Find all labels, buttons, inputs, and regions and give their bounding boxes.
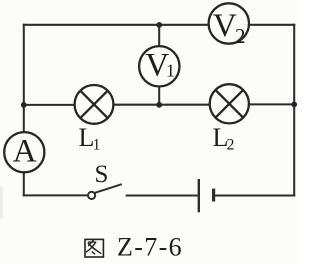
node junction left — [21, 102, 27, 108]
wire V2 to top-right corner — [249, 24, 294, 26]
svg-text:A: A — [13, 133, 37, 169]
label L2 — [213, 123, 235, 154]
lamp L1 — [75, 85, 114, 124]
wire middle left (node to L1) — [24, 104, 75, 106]
svg-text:2: 2 — [235, 24, 246, 48]
switch S pivot — [88, 192, 95, 199]
battery negative plate (short) — [212, 189, 215, 202]
svg-text:V: V — [213, 8, 237, 44]
label L1 — [79, 123, 101, 154]
node junction right — [291, 102, 297, 108]
ammeter A — [4, 132, 44, 172]
wire right side — [293, 25, 295, 196]
wire bottom-left corner to switch — [24, 194, 88, 196]
wire left side lower (A to corner) — [23, 172, 25, 195]
svg-text:1: 1 — [166, 61, 175, 81]
wire V1 branch bottom — [158, 86, 160, 104]
battery positive plate (long) — [198, 179, 200, 212]
wire switch to battery — [127, 194, 197, 196]
lamp L2 — [210, 84, 249, 123]
scan artifact left edge — [0, 187, 2, 219]
wire V1 branch top — [158, 25, 160, 46]
wire left side upper — [23, 25, 25, 132]
wire top-left to V2 — [24, 24, 209, 26]
caption character tu (figure) — [85, 239, 103, 257]
svg-text:1: 1 — [93, 137, 101, 154]
voltmeter V1 — [139, 46, 179, 86]
wire battery to bottom-right corner — [214, 194, 295, 196]
node junction middle V1 — [156, 102, 162, 108]
wire middle right (L2 to right side) — [249, 103, 294, 105]
switch S lever — [95, 184, 122, 193]
svg-text:Z-7-6: Z-7-6 — [117, 232, 183, 261]
voltmeter V2 — [209, 3, 249, 48]
svg-text:2: 2 — [227, 137, 235, 154]
svg-text:S: S — [95, 161, 109, 188]
node junction top V1 — [156, 22, 162, 28]
wire middle center (L1 to L2) — [113, 104, 209, 106]
